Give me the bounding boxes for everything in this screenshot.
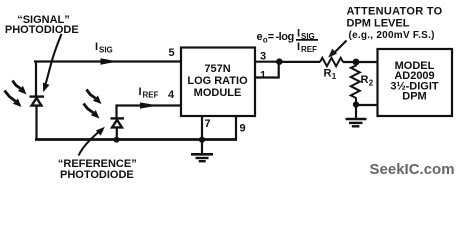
svg-text:I: I [95,41,98,53]
resistor R2 [351,62,374,105]
svg-text:1: 1 [332,72,337,81]
label "SIGNAL" PHOTODIODE [5,14,79,36]
svg-text:I: I [297,41,300,53]
svg-text:REF: REF [301,45,317,54]
ground under R2 [346,105,367,127]
svg-text:LOG RATIO: LOG RATIO [187,75,248,87]
svg-text:-log: -log [276,31,294,43]
pointer arrow from label to reference photodiode [79,127,105,156]
wire: I_REF from photodiode up and right to pin 4 [117,106,181,119]
junction dot: pin 7 to ground rail [199,137,205,143]
photodiode D2 (reference) [111,118,125,139]
label ATTENUATOR TO DPM LEVEL [347,6,443,42]
wire: bottom rail [35,138,237,141]
svg-text:ATTENUATOR TO: ATTENUATOR TO [347,6,443,18]
junction dot: R2 bottom / DPM low [353,101,359,107]
pin 7 wire [201,117,203,140]
pin 4 label [168,89,175,101]
label "REFERENCE" PHOTODIODE [58,158,137,181]
watermark SeekIC.com [370,161,455,178]
svg-text:SIG: SIG [99,46,113,55]
svg-text:I: I [139,86,142,98]
ground under pin 7 [191,140,213,162]
svg-text:757N: 757N [204,63,230,75]
DPM box U2: MODEL AD2009 [378,49,453,116]
svg-text:e: e [257,31,263,43]
svg-text:3: 3 [260,51,266,63]
svg-text:PHOTODIODE: PHOTODIODE [5,24,79,36]
label I_REF [139,86,159,100]
pin 1 label [260,70,266,82]
label e_o = -log I_SIG/I_REF [257,28,319,55]
label I_SIG [95,41,113,55]
pin 7 label [205,118,211,130]
svg-text:MODULE: MODULE [194,87,242,99]
current arrow I_SIG [101,58,118,64]
pointer arrow from label to signal photodiode [43,34,62,92]
wire: R1 to attenuator node [343,61,377,63]
light arrow 2 into signal photodiode [5,91,22,108]
svg-text:1: 1 [260,70,266,82]
svg-text:(e.g., 200mV F.S.): (e.g., 200mV F.S.) [349,30,435,41]
junction dot: reference photodiode to rail [114,137,120,143]
svg-text:5: 5 [168,47,174,59]
light arrow 1 into signal photodiode [13,81,27,95]
svg-text:I: I [297,28,300,40]
svg-text:DPM LEVEL: DPM LEVEL [347,17,410,29]
svg-text:4: 4 [168,89,175,101]
svg-text:REF: REF [143,91,159,100]
svg-text:R: R [361,74,369,86]
svg-text:7: 7 [205,118,211,130]
pin 5 label [168,47,174,59]
junction dot: output node e_o [276,58,283,65]
light arrow 2 into reference photodiode [84,104,100,119]
svg-text:9: 9 [240,123,246,135]
wire: R2 bottom to DPM box [356,104,377,106]
junction dot: attenuator node [353,59,360,66]
light arrow 1 into reference photodiode [87,90,102,105]
wire: left vertical of input loop [35,62,38,140]
svg-text:R: R [324,68,332,80]
photodiode D1 (signal) [30,97,45,106]
svg-text:SeekIC.com: SeekIC.com [370,161,455,178]
svg-text:DPM: DPM [402,91,426,103]
wire: output node to R1 [280,61,321,63]
pointer arrow from attenuator label to R1 [328,41,346,58]
wire: I_SIG top wire from left loop to pin 5 [34,60,181,62]
pin 3 wire [255,61,280,63]
svg-text:2: 2 [369,79,374,88]
pin 9 label [240,123,246,135]
resistor R1 [320,58,343,81]
pin 1 wire (up to output node) [255,62,279,78]
pin 9 wire [235,117,237,140]
current arrow I_REF [140,102,158,108]
svg-text:PHOTODIODE: PHOTODIODE [60,169,134,181]
pin 3 label [260,51,266,63]
svg-text:=: = [268,31,274,43]
op module U1: 757N LOG RATIO MODULE box [181,48,255,117]
